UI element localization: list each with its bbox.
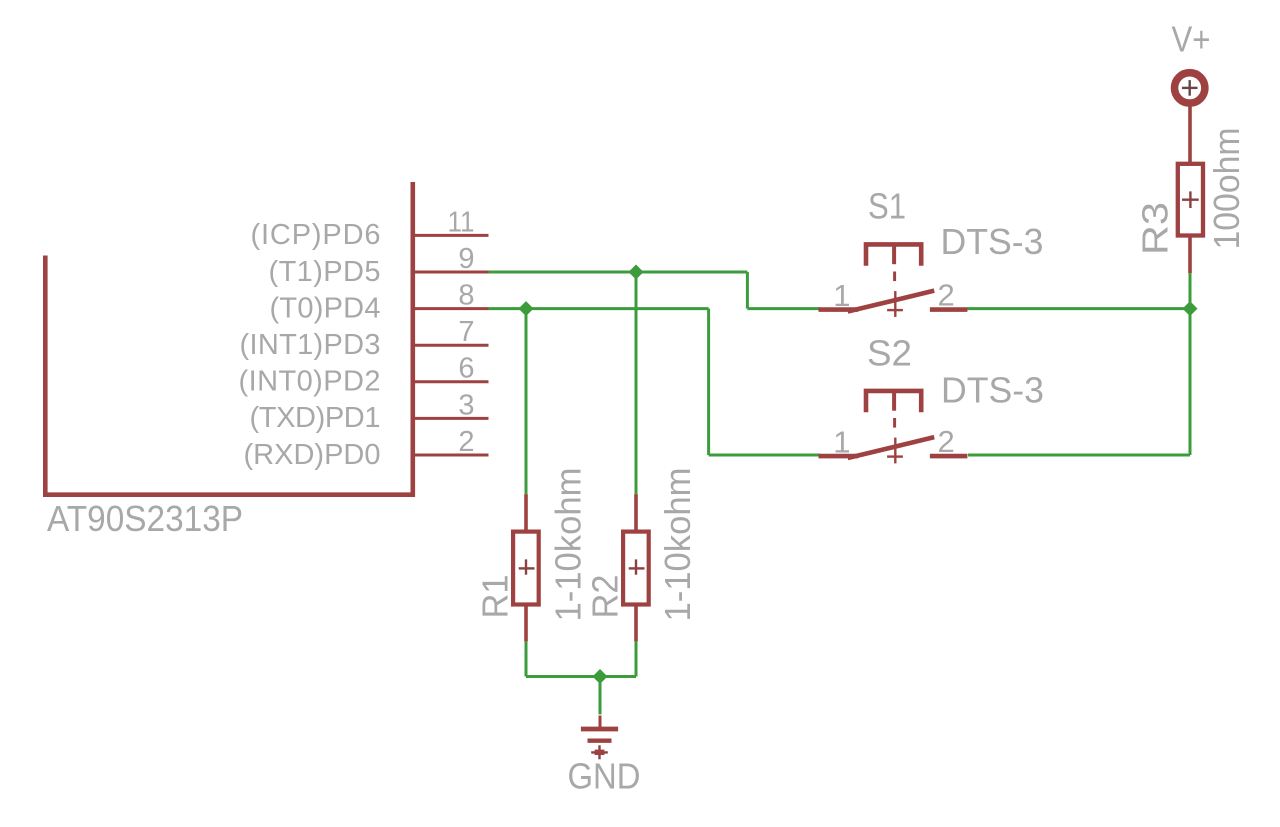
svg-text:R3: R3 [1135,202,1176,255]
resistor R1 body [513,532,539,605]
svg-text:V+: V+ [1172,19,1211,60]
resistor R1 pin stubs [524,494,528,531]
svg-text:3: 3 [458,389,474,421]
switch S2 pin 1 contact [819,454,859,459]
GND symbol pin stub [599,716,602,728]
svg-text:S1: S1 [868,186,906,227]
switch S2 bracket (button symbol) [866,391,921,412]
svg-text:1-10kohm: 1-10kohm [548,468,589,622]
switch S2 origin cross [894,438,896,464]
pin 7 (INT1)PD3 [413,344,489,347]
svg-text:(RXD)PD0: (RXD)PD0 [244,439,381,471]
junction at V+ net right [1183,301,1198,316]
resistor R2 body [623,532,649,605]
wire net PD4 vertical drop [707,309,710,455]
wire net PD4 to S2 pin1 [709,454,820,457]
switch S2 pin 2 contact [930,454,968,459]
svg-text:DTS-3: DTS-3 [941,370,1044,411]
wire net PD4 row B horizontal [489,307,709,310]
pin 2 (RXD)PD0 [413,454,489,457]
wire net PD5 to S1 pin1 [747,307,820,310]
switch S1 pin 2 contact [930,307,968,312]
wire S1 pin2 to right vertical [967,307,1190,310]
switch S2 dashed actuator link [893,418,896,428]
GND symbol bars [581,727,618,732]
svg-text:(T1)PD5: (T1)PD5 [269,256,381,288]
switch S1 bracket (button symbol) [866,244,921,265]
wire R3 bottom green [1189,273,1192,308]
switch S1 origin cross [894,291,896,317]
resistor R2 pin stubs [634,494,638,531]
svg-text:9: 9 [458,243,474,275]
wire S2 pin2 to right vertical [968,454,1190,457]
pin 8 (T0)PD4 [413,307,489,310]
svg-text:2: 2 [938,277,955,312]
wire right vertical V+ net [1189,309,1192,455]
wire R1 top green [525,309,528,495]
svg-text:2: 2 [458,426,474,458]
svg-text:GND: GND [568,756,641,797]
switch S2 lever [850,438,932,458]
pin 9 (T1)PD5 [413,271,489,274]
junction on PD5 net at R2 [629,265,644,280]
pin 3 (TXD)PD1 [413,417,489,420]
junction on PD4 net at R1 [519,301,534,316]
svg-text:1: 1 [833,424,850,459]
GND origin cross [598,745,600,759]
wire GND drop green [599,677,602,715]
svg-text:S2: S2 [867,333,912,374]
svg-text:7: 7 [458,316,474,348]
svg-text:AT90S2313P: AT90S2313P [47,498,243,539]
wire R1 bottom green [525,641,528,676]
svg-text:DTS-3: DTS-3 [941,221,1044,262]
V+ supply symbol [1175,73,1205,103]
svg-text:(TXD)PD1: (TXD)PD1 [250,402,381,434]
IC U1 outline (AT90S2313P body, partial) [45,182,413,495]
wire bottom row to GND [526,675,636,678]
svg-text:(INT1)PD3: (INT1)PD3 [240,329,381,361]
svg-text:R2: R2 [585,575,626,619]
svg-text:(INT0)PD2: (INT0)PD2 [239,366,381,398]
wire R2 top green [635,272,638,494]
switch S1 dashed actuator link [893,272,896,282]
svg-text:100ohm: 100ohm [1206,128,1247,250]
wire V+ to R3 (red pin) [1188,106,1192,163]
switch S1 pin 1 contact [819,307,859,312]
resistor R3 body [1178,164,1203,236]
svg-text:6: 6 [458,353,474,385]
svg-text:R1: R1 [475,575,516,619]
wire net PD5 row A horizontal [489,271,748,274]
svg-text:1: 1 [833,278,850,313]
switch S1 lever [850,291,932,311]
svg-text:2: 2 [938,424,955,459]
wire R2 bottom green [635,641,638,676]
svg-text:11: 11 [448,206,475,238]
resistor R3 bottom pin stub [1188,236,1192,273]
pin 6 (INT0)PD2 [413,380,489,383]
svg-text:(ICP)PD6: (ICP)PD6 [251,219,381,251]
pin 11 (ICP)PD6 [413,234,489,237]
junction at GND column [593,669,608,684]
svg-text:1-10kohm: 1-10kohm [657,468,698,622]
svg-text:(T0)PD4: (T0)PD4 [270,292,381,324]
wire net PD5 drop to switch row [746,272,749,309]
svg-text:8: 8 [458,280,474,312]
